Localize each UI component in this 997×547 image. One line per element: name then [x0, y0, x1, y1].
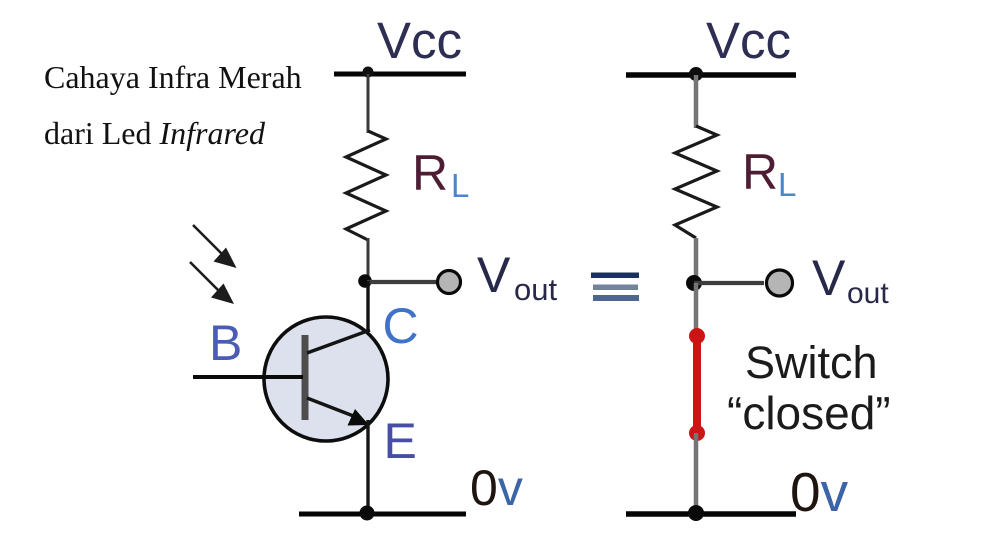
svg-text:B: B [209, 315, 242, 371]
switch contact dot bottom [689, 425, 705, 441]
svg-text:Cahaya Infra Merah: Cahaya Infra Merah [44, 59, 302, 95]
svg-text:out: out [847, 277, 889, 310]
0v rail (left) [299, 512, 466, 517]
svg-text:“closed”: “closed” [727, 387, 891, 439]
transistor base bar [302, 335, 309, 420]
svg-text:out: out [514, 272, 557, 307]
light arrow 1 [193, 225, 237, 268]
svg-text:0v: 0v [790, 461, 849, 523]
Vcc rail (right) [626, 72, 796, 78]
svg-text:L: L [778, 166, 796, 203]
svg-text:R: R [742, 144, 778, 200]
wire emitter to 0v rail (left) [366, 420, 369, 513]
svg-text:V: V [812, 250, 846, 306]
svg-text:L: L [451, 167, 469, 204]
resistor RL (left) [346, 131, 386, 240]
wire resistor to node (left) [367, 238, 370, 281]
light arrow 2 [190, 262, 234, 304]
node output (right) [686, 275, 702, 291]
junction dot Vcc (right) [689, 67, 703, 81]
collector diagonal [307, 330, 370, 353]
wire node to switch (right) [694, 283, 699, 336]
resistor RL (right) [675, 126, 717, 238]
switch contact dot top [689, 328, 705, 344]
junction dot 0v (right) [688, 505, 704, 521]
svg-text:0v: 0v [470, 460, 523, 516]
wire Vcc to resistor (left) [367, 74, 370, 133]
Vout terminal (right) [767, 270, 793, 296]
emitter diagonal with arrow [307, 398, 369, 426]
wire node to collector (left) [366, 281, 369, 332]
wire node to Vout terminal (right) [694, 281, 764, 285]
equivalence symbol [591, 273, 639, 302]
Vcc rail (left) [334, 72, 466, 77]
transistor Q1 body [264, 317, 388, 441]
svg-text:C: C [383, 298, 419, 354]
svg-text:Vcc: Vcc [706, 12, 791, 69]
svg-text:E: E [384, 413, 417, 469]
wire resistor to node (right) [694, 238, 699, 283]
wire switch to 0v rail (right) [694, 433, 699, 514]
svg-text:Switch: Switch [745, 337, 878, 388]
0v rail (right) [626, 511, 796, 517]
junction dot Vcc (left) [363, 67, 374, 78]
wire Vcc to resistor (right) [694, 75, 699, 128]
node collector-output (left) [358, 274, 372, 288]
Vout terminal (left) [438, 271, 461, 294]
switch closed red bar [693, 336, 701, 433]
svg-text:dari Led Infrared: dari Led Infrared [44, 115, 266, 151]
svg-text:Vcc: Vcc [377, 12, 462, 69]
svg-text:V: V [477, 247, 511, 303]
wire node to Vout terminal (left) [367, 280, 438, 284]
base lead [193, 375, 303, 379]
junction dot 0v (left) [360, 506, 375, 521]
svg-text:R: R [412, 145, 448, 201]
